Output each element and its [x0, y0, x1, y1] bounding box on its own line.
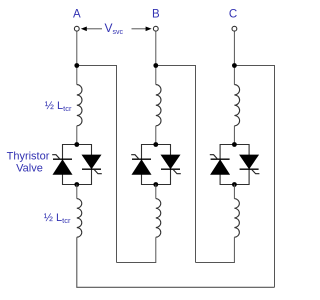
wire: phase C junction branch right and down [234, 66, 274, 288]
valve bottom node (junction dot), phase B [153, 182, 158, 187]
valve bottom node (junction dot), phase A [74, 182, 79, 187]
svg-text:B: B [152, 8, 160, 20]
svg-text:Thyristor: Thyristor [7, 151, 50, 163]
wire: phase B valve to bottom inductor [155, 185, 157, 199]
inductor 1/2 Ltcr bottom, phase B [156, 199, 161, 238]
wire: phase A valve to bottom inductor [76, 185, 78, 199]
wire: phase A junction branch right and down [77, 66, 117, 263]
svg-text:½ Ltcr: ½ Ltcr [44, 212, 71, 225]
valve top node (junction dot), phase B [153, 142, 158, 147]
wire: phase B terminal to top inductor [155, 29, 157, 85]
junction node at phase C top [232, 63, 237, 68]
thyristor (downward) right arm, phase B [161, 155, 181, 174]
junction node at phase B top [153, 63, 158, 68]
Vsvc annotation right arrow [132, 27, 152, 32]
inductor 1/2 Ltcr top, phase A [77, 85, 82, 126]
thyristor valve phase B: outline loop [142, 145, 171, 185]
label: Thyristor Valve [7, 151, 50, 175]
thyristor (upward) left arm, phase C [210, 155, 230, 175]
inductor 1/2 Ltcr bottom, phase A [77, 199, 82, 238]
wire: phase A bottom inductor down to delta rail [77, 237, 275, 287]
terminal B [153, 26, 158, 31]
wire: phase C terminal to top inductor [233, 29, 235, 85]
wire: phase B top inductor to valve [155, 126, 157, 145]
thyristor (downward) right arm, phase A [82, 155, 102, 174]
svg-text:Valve: Valve [16, 163, 43, 175]
valve bottom node (junction dot), phase C [232, 182, 237, 187]
inductor 1/2 Ltcr top, phase C [234, 85, 239, 126]
wire: phase B junction branch right and down [156, 66, 196, 263]
terminal C [232, 26, 237, 31]
thyristor (upward) left arm, phase B [131, 155, 151, 175]
svg-text:A: A [73, 8, 81, 20]
svg-text:Vsvc: Vsvc [105, 21, 124, 36]
thyristor (upward) left arm, phase A [52, 155, 72, 175]
wire: phase B bottom inductor down and left to node x=116.5 [117, 237, 156, 262]
thyristor valve phase C: outline loop [220, 145, 249, 185]
valve top node (junction dot), phase A [74, 142, 79, 147]
wire: phase A terminal to top inductor [76, 29, 78, 85]
Vsvc annotation left arrow [81, 27, 102, 32]
inductor 1/2 Ltcr bottom, phase C [234, 199, 239, 238]
thyristor (downward) right arm, phase C [239, 155, 259, 174]
wire: phase C top inductor to valve [233, 126, 235, 145]
svg-text:C: C [229, 8, 237, 20]
junction node at phase A top [74, 63, 79, 68]
svg-text:½ Ltcr: ½ Ltcr [45, 100, 72, 113]
terminal A [74, 26, 79, 31]
wire: phase C valve to bottom inductor [233, 185, 235, 199]
valve top node (junction dot), phase C [232, 142, 237, 147]
inductor 1/2 Ltcr top, phase B [156, 85, 161, 126]
wire: phase C bottom inductor down and left to node x=195.5 [196, 237, 235, 262]
wire: phase A top inductor to valve [76, 126, 78, 145]
thyristor valve phase A: outline loop [63, 145, 92, 185]
